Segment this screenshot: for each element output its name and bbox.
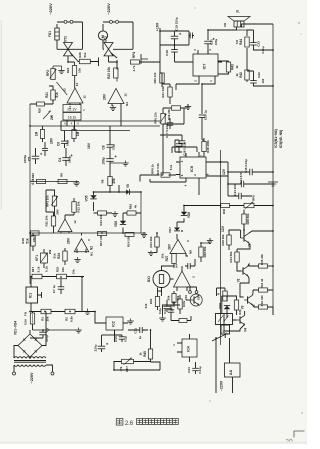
junction dot 4: [272, 49, 274, 51]
pot RP2: [51, 69, 55, 80]
svg-text:R2: R2: [65, 317, 69, 321]
svg-text:100μ: 100μ: [214, 39, 218, 46]
wire K to AA: [216, 338, 230, 393]
resistor R39: [172, 106, 181, 110]
transistor V4: [239, 316, 241, 323]
svg-text:R40 22k: R40 22k: [153, 72, 157, 83]
wire rail to R44: [237, 29, 248, 31]
wire R20 junction: [30, 103, 53, 105]
svg-text:R12 10k: R12 10k: [77, 201, 81, 212]
svg-text:0.1μ: 0.1μ: [66, 140, 70, 146]
junction dot 3: [207, 29, 209, 31]
wire bus8: [33, 329, 77, 331]
svg-text:R38 100k: R38 100k: [206, 140, 210, 153]
ground G11: [130, 319, 132, 322]
svg-text:V4: V4: [244, 328, 248, 332]
svg-text:R13 10k: R13 10k: [99, 214, 103, 225]
junction dot 11: [183, 205, 185, 207]
svg-text:AA: AA: [229, 370, 233, 376]
wire R44 col: [246, 30, 248, 82]
svg-text:C20 1μ: C20 1μ: [203, 110, 207, 120]
page corner mark: [294, 431, 305, 438]
wire N5 leads: [170, 266, 187, 291]
resistor R12: [72, 202, 76, 213]
svg-text:14: 14: [75, 83, 79, 87]
terminal J3a: [13, 372, 16, 375]
transistor V6: [190, 294, 202, 306]
svg-text:C4: C4: [58, 158, 62, 162]
svg-text:1μ: 1μ: [170, 308, 174, 312]
svg-text:C24: C24: [187, 367, 191, 373]
pot RP6: [161, 173, 170, 177]
junction dot 16: [94, 311, 96, 313]
junction dot 6: [220, 161, 222, 163]
svg-text:12: 12: [73, 220, 77, 224]
svg-text:4Ω: 4Ω: [223, 22, 227, 27]
svg-text:C5: C5: [28, 157, 32, 161]
wire IC6 bottom: [150, 179, 199, 195]
wire V2 collector: [248, 264, 259, 266]
resistor R48: [223, 291, 227, 301]
svg-text:100k: 100k: [182, 300, 186, 307]
svg-text:47k: 47k: [119, 366, 123, 371]
svg-text:10k: 10k: [161, 253, 165, 258]
svg-text:FU: FU: [24, 312, 28, 316]
pot RP1 arrow: [43, 111, 51, 119]
ground G9: [87, 309, 89, 312]
svg-text:R45: R45: [143, 351, 147, 357]
svg-text:R28 56k: R28 56k: [203, 246, 207, 257]
junction dot 9: [227, 183, 229, 185]
svg-text:V5: V5: [126, 184, 130, 188]
wire N3 leads: [70, 103, 80, 105]
svg-text:R34 56k: R34 56k: [229, 251, 233, 262]
resistor R11: [51, 216, 55, 226]
resistor R45: [148, 349, 152, 359]
svg-text:N1: N1: [90, 252, 94, 256]
resistor R26: [79, 59, 90, 64]
junction dot 8: [272, 171, 274, 173]
svg-text:50k: 50k: [176, 295, 180, 300]
junction dot 13: [272, 205, 274, 207]
resistor R13: [98, 211, 107, 215]
svg-text:2: 2: [83, 108, 85, 112]
resistor R35: [259, 264, 268, 268]
capacitor C19 220u: [171, 35, 179, 37]
svg-text:1M: 1M: [35, 131, 39, 136]
capacitor C4 100u: [62, 157, 70, 159]
svg-text:VD7: VD7: [168, 227, 172, 233]
speck2: [209, 400, 210, 401]
junction dot 20: [116, 61, 118, 63]
wire 16V loop: [160, 31, 189, 87]
junction dot 34: [272, 230, 274, 232]
resistor R30b: [155, 297, 159, 307]
svg-text:R27: R27: [165, 255, 169, 261]
svg-text:R11 10k: R11 10k: [45, 215, 49, 226]
svg-text:IC3(N1~N4): IC3(N1~N4): [274, 129, 278, 147]
svg-text:28V: 28V: [50, 137, 54, 144]
junction dot 40: [201, 83, 203, 85]
resistor R36: [242, 214, 246, 224]
svg-text:R44: R44: [239, 39, 243, 45]
resistor R21: [51, 90, 55, 100]
wire RP2 wiper to N3: [57, 82, 68, 95]
svg-text:R42: R42: [239, 72, 243, 78]
svg-text:20k: 20k: [112, 178, 116, 183]
svg-text:~220V: ~220V: [106, 3, 111, 15]
resistor R31: [234, 300, 238, 310]
resistor R10: [37, 179, 46, 183]
ground G8: [77, 257, 79, 260]
junction dot 10: [272, 183, 274, 185]
resistor R27b: [172, 254, 176, 264]
capacitor C7: [58, 286, 65, 288]
svg-text:C23: C23: [257, 41, 261, 47]
svg-text:100μ: 100μ: [102, 157, 106, 164]
svg-text:IC2: IC2: [112, 321, 116, 327]
svg-text:R29 36k: R29 36k: [221, 234, 225, 245]
svg-text:7: 7: [200, 155, 204, 157]
svg-text:1: 1: [172, 344, 176, 346]
junction dot 39: [29, 311, 31, 313]
svg-text:N2: N2: [90, 246, 94, 250]
capacitor Cmic: [164, 305, 171, 307]
IC7 pins: [198, 50, 222, 80]
svg-text:R31: R31: [238, 309, 242, 315]
microphone BX1: [153, 271, 170, 288]
junction dot 1: [159, 30, 161, 32]
ground G16: [150, 251, 152, 253]
wire speaker leads: [208, 24, 273, 40]
op-amp N5: [174, 271, 191, 287]
op-amp N3: [67, 88, 83, 103]
capacitor C23: [250, 42, 257, 44]
diode VD9: [224, 306, 230, 309]
AA box: [225, 363, 241, 377]
wire 12V rail: [220, 150, 222, 345]
junction dot 17: [44, 311, 46, 313]
svg-text:IC4: IC4: [187, 346, 191, 352]
resistor R44: [245, 37, 249, 47]
speaker BL: [234, 21, 244, 27]
svg-text:2W: 2W: [50, 114, 54, 120]
resistor R20: [37, 102, 45, 106]
junction dot 32: [243, 229, 245, 231]
svg-text:VD8: VD8: [187, 212, 191, 218]
resistor R34: [235, 252, 239, 262]
svg-text:~220V: ~220V: [48, 3, 53, 15]
wire bus7 +rail: [31, 311, 95, 313]
corner smudge top right: [298, 22, 300, 24]
svg-text:RP7: RP7: [125, 366, 129, 372]
svg-text:C6: C6: [56, 142, 60, 146]
capacitor C18: [171, 49, 178, 51]
svg-text:0.01μ: 0.01μ: [261, 46, 265, 53]
svg-text:16.1k: 16.1k: [68, 115, 77, 119]
junction mark near RP4 rail: [141, 54, 148, 64]
svg-text:+16V: +16V: [156, 22, 160, 31]
svg-text:VD6: VD6: [114, 221, 118, 227]
zener V5: [126, 189, 129, 195]
capacitor Cd: [189, 33, 191, 39]
svg-text:C11: C11: [134, 328, 138, 334]
svg-text:51k: 51k: [25, 238, 29, 243]
svg-text:R36 56k: R36 56k: [246, 213, 250, 224]
svg-text:C15 0.01μ: C15 0.01μ: [244, 159, 248, 173]
wire IC7 pin1 net: [202, 80, 215, 114]
resistor R29: [227, 235, 231, 245]
svg-text:6.8μ: 6.8μ: [158, 308, 162, 314]
junction dot 30: [181, 230, 183, 232]
wire loop channel B: [103, 22, 133, 49]
jack XS1: [189, 291, 192, 294]
capacitor C14: [240, 181, 242, 188]
wire R22 to N3 out: [74, 76, 76, 89]
svg-text:R16: R16: [129, 203, 133, 209]
resistor R17: [32, 274, 42, 279]
resistor R40: [221, 203, 230, 207]
svg-text:1: 1: [209, 80, 213, 82]
svg-text:3: 3: [180, 160, 184, 162]
resistor Rsm: [172, 294, 176, 303]
svg-text:R10: R10: [31, 172, 35, 178]
resistor R26b: [155, 237, 159, 247]
junction dot 29: [156, 232, 158, 234]
wire ladder base: [241, 224, 244, 238]
transformer T1 secondary: [14, 357, 46, 358]
terminal J2a: [110, 20, 113, 23]
capacitor C12: [168, 309, 175, 311]
svg-text:10k: 10k: [72, 269, 76, 274]
svg-text:12: 12: [83, 95, 87, 99]
svg-text:V2: V2: [237, 278, 241, 282]
op-amp N1: [58, 219, 72, 232]
ground G3: [112, 105, 114, 108]
IC6 pins: [176, 152, 228, 182]
wire V2 emitter: [240, 276, 249, 297]
svg-text:9: 9: [87, 239, 91, 241]
svg-text:4: 4: [208, 49, 212, 51]
fuse FU1: [55, 28, 59, 40]
svg-text:5.1k: 5.1k: [45, 266, 49, 272]
junction dot 31: [200, 242, 202, 244]
wire loop channel A: [57, 22, 83, 49]
svg-text:10k: 10k: [61, 267, 65, 272]
svg-text:R18: R18: [21, 238, 25, 244]
svg-text:1k: 1k: [235, 73, 239, 77]
svg-text:RP5 22k: RP5 22k: [153, 112, 157, 124]
svg-text:R9: R9: [60, 173, 64, 177]
svg-text:RP2: RP2: [46, 70, 50, 76]
ground G14 on rail: [268, 182, 278, 186]
wire V3 emitter: [252, 305, 254, 307]
svg-text:R32 43k: R32 43k: [260, 295, 264, 306]
junction dot 22: [140, 191, 142, 193]
svg-text:50k: 50k: [167, 295, 171, 300]
ground G4: [125, 161, 127, 164]
svg-text:11: 11: [68, 106, 72, 109]
svg-text:R40: R40: [222, 208, 226, 214]
svg-text:1k: 1k: [235, 65, 239, 69]
svg-text:N8: N8: [189, 250, 193, 254]
svg-text:IC5(N5. N8): IC5(N5. N8): [279, 130, 283, 148]
svg-text:IC1: IC1: [29, 293, 33, 298]
svg-text:VT1: VT1: [64, 36, 68, 42]
wire mic top: [158, 266, 175, 296]
svg-text:2: 2: [193, 174, 197, 176]
capacitor C3: [42, 147, 48, 149]
svg-text:51k: 51k: [55, 92, 59, 97]
resistor R28: [199, 247, 203, 257]
svg-text:6: 6: [64, 122, 66, 126]
wire mid-bottom links: [163, 305, 192, 321]
resistor R24: [63, 251, 67, 261]
junction dot 27: [101, 232, 103, 234]
relay coil box: [216, 314, 233, 325]
speck3: [194, 7, 195, 8]
resistor R47h: [179, 319, 187, 323]
pot RP4: [131, 60, 140, 64]
IC6 box: [180, 157, 206, 178]
junction dot 18: [69, 311, 71, 313]
junction dot 12: [220, 205, 222, 207]
svg-text:8: 8: [77, 122, 79, 126]
ground G6: [114, 211, 116, 214]
wire relay top: [217, 288, 228, 314]
IC2 box: [106, 317, 123, 330]
capacitor C8: [107, 144, 114, 146]
relay pot KF1: [41, 253, 48, 263]
wire gate bus A: [68, 58, 99, 67]
svg-text:0.1μ: 0.1μ: [124, 336, 128, 342]
wire IC2 out: [102, 334, 115, 336]
svg-text:R22: R22: [66, 67, 70, 73]
svg-text:R21: R21: [45, 92, 49, 98]
svg-text:2: 2: [194, 80, 198, 82]
svg-text:10k: 10k: [77, 68, 81, 73]
box 22.1V: [63, 105, 81, 113]
svg-text:R25: R25: [56, 266, 60, 272]
junction dot 23: [118, 191, 120, 193]
svg-text:C19 220μ: C19 220μ: [175, 17, 179, 31]
wire R39 loop: [163, 108, 184, 124]
pot RP5: [244, 203, 254, 207]
svg-text:R41 22k: R41 22k: [161, 86, 165, 98]
junction dot 25: [109, 191, 111, 193]
svg-text:4.7k: 4.7k: [132, 65, 136, 71]
ground G7: [143, 232, 145, 235]
svg-text:~220V: ~220V: [220, 380, 224, 391]
svg-text:IC7: IC7: [203, 64, 207, 70]
resistor R25: [57, 274, 67, 279]
wire bus6: [30, 277, 84, 312]
capacitor C17: [167, 122, 174, 124]
svg-text:5.1k: 5.1k: [169, 164, 173, 170]
svg-text:28V: 28V: [56, 208, 60, 214]
svg-text:R1: R1: [41, 317, 45, 321]
svg-text:C7 1μ: C7 1μ: [52, 285, 56, 293]
svg-text:R14 10k: R14 10k: [127, 236, 131, 247]
resistor R17b: [98, 231, 107, 235]
bridge diode ticks: [23, 338, 37, 353]
wire bridge leads: [14, 312, 46, 360]
wire right rail: [272, 24, 274, 315]
svg-text:28V: 28V: [168, 243, 172, 249]
svg-text:R23 10k: R23 10k: [107, 67, 111, 79]
ground G5: [76, 181, 78, 184]
junction dot 24: [93, 191, 95, 193]
caption fig 2.6: [116, 419, 123, 426]
terminal J1b: [70, 20, 73, 23]
resistor R32: [259, 305, 268, 309]
svg-text:VT2: VT2: [104, 36, 108, 42]
capacitor C9b 220u: [98, 345, 106, 347]
svg-text:N4: N4: [125, 102, 129, 106]
svg-text:2W: 2W: [48, 250, 52, 255]
svg-text:9: 9: [186, 240, 190, 242]
svg-text:28V: 28V: [67, 237, 71, 244]
capacitor C21 100u: [204, 40, 212, 42]
capacitor C13: [238, 193, 240, 200]
relay K box: [221, 325, 230, 334]
transistor V1: [243, 234, 245, 241]
fuse FU2: [30, 313, 34, 324]
terminal J3b: [51, 372, 54, 375]
triac VT1: [64, 43, 73, 56]
svg-text:6: 6: [180, 174, 184, 176]
page bottom edge shading: [0, 441, 307, 444]
svg-text:28V: 28V: [103, 93, 107, 100]
junction dot 5: [272, 85, 274, 87]
speck1: [301, 412, 302, 413]
ground G13: [187, 104, 189, 107]
ground G12: [162, 316, 164, 319]
wire N2 leads: [77, 233, 86, 253]
svg-text:IC6: IC6: [190, 166, 194, 172]
svg-text:4k: 4k: [134, 205, 138, 209]
svg-text:2200μ: 2200μ: [23, 155, 27, 164]
motor M1: [98, 31, 107, 40]
svg-text:R24: R24: [57, 253, 61, 259]
svg-text:6.8k: 6.8k: [70, 316, 74, 322]
pot RP7: [122, 359, 134, 363]
junction dot 35: [215, 337, 217, 339]
resistor R27: [72, 130, 76, 139]
wire rail to IC6: [161, 97, 170, 175]
wire right mid rail: [140, 192, 142, 233]
svg-text:RP4: RP4: [132, 52, 136, 58]
svg-text:C22: C22: [257, 72, 261, 78]
wire to IC2: [95, 312, 106, 324]
resistor R33: [259, 288, 268, 292]
wire branch col: [221, 162, 229, 196]
wire V3 collector: [251, 293, 254, 295]
svg-text:FU1: FU1: [48, 31, 52, 37]
svg-text:0.5A: 0.5A: [24, 318, 28, 325]
wire bus2: [30, 125, 160, 127]
svg-text:BX1: BX1: [147, 276, 151, 282]
terminal J2b: [116, 20, 119, 23]
resistor R40v 22k: [160, 73, 164, 83]
svg-text:C8: C8: [102, 145, 106, 149]
resistor R42: [245, 70, 249, 80]
resistor R23: [114, 68, 118, 78]
wire bus stubs: [61, 120, 75, 131]
junction dot 38: [42, 329, 44, 331]
svg-text:VD5: VD5: [85, 195, 89, 201]
wire R23 to N4 out: [116, 78, 118, 82]
